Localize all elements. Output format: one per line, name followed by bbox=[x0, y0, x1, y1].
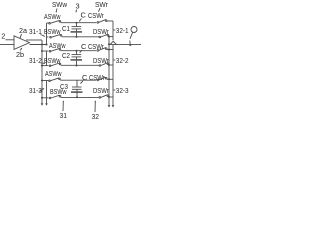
svg-text:31-2: 31-2 bbox=[29, 56, 42, 65]
switch BSWw unit2 bbox=[49, 65, 51, 67]
svg-text:32-1: 32-1 bbox=[116, 26, 129, 35]
svg-text:31-1: 31-1 bbox=[29, 27, 42, 36]
switch CSWr unit1 bbox=[97, 22, 99, 24]
label 32-3 bbox=[114, 86, 129, 95]
wire unit3 top bbox=[42, 80, 48, 82]
label 32 bbox=[92, 100, 100, 121]
switch CSWr unit3 bbox=[97, 79, 99, 81]
label C unit1 bbox=[79, 11, 87, 22]
svg-text:SWw: SWw bbox=[52, 0, 68, 9]
wire bus 31 vertical bbox=[41, 40, 43, 105]
wire caret connector bbox=[110, 41, 117, 45]
switch ASWw unit2 bbox=[49, 50, 51, 52]
label 2a bbox=[19, 26, 28, 38]
node bus31 unit2 bottom bbox=[41, 65, 43, 67]
wire 32 lower vertical bbox=[112, 45, 114, 107]
svg-text:DSWr: DSWr bbox=[93, 86, 109, 95]
svg-text:C: C bbox=[81, 42, 87, 51]
svg-text:31: 31 bbox=[60, 111, 68, 120]
switch DSWr unit2 bbox=[99, 65, 101, 67]
label 31-3 bbox=[29, 86, 44, 95]
switch CSWr unit2 bbox=[97, 50, 99, 52]
arrowhead 32seg end bbox=[112, 105, 115, 107]
wire op-amp output bbox=[30, 44, 47, 46]
wire unit1 bottom bbox=[47, 36, 49, 38]
label C unit2 bbox=[80, 42, 88, 53]
wire 32-1 vertical segment bbox=[112, 21, 114, 40]
wire input bottom bbox=[0, 44, 14, 46]
svg-text:SWr: SWr bbox=[95, 0, 108, 9]
wire input top bbox=[6, 39, 15, 41]
node bus31 unit3 bottom bbox=[41, 97, 43, 99]
switch ASWw unit1 bbox=[49, 22, 51, 24]
wire unit3 bottom bbox=[42, 97, 48, 99]
svg-text:2: 2 bbox=[1, 32, 5, 41]
label SWw bbox=[52, 0, 68, 13]
node bus31 unit3 bbox=[41, 79, 43, 81]
wire op-amp upper output bbox=[26, 39, 42, 41]
svg-text:CSWr: CSWr bbox=[88, 11, 104, 20]
wire 31-3 vertical segment bbox=[46, 81, 48, 105]
label SWr bbox=[95, 0, 108, 12]
svg-text:31-3: 31-3 bbox=[29, 86, 42, 95]
label 3 bbox=[75, 2, 79, 13]
svg-text:ASWw: ASWw bbox=[45, 69, 62, 78]
label 2b bbox=[16, 48, 24, 59]
svg-text:CSWr: CSWr bbox=[88, 42, 104, 51]
svg-text:3: 3 bbox=[76, 2, 80, 11]
svg-text:32-3: 32-3 bbox=[116, 86, 129, 95]
svg-text:ASWw: ASWw bbox=[44, 12, 61, 21]
svg-text:32: 32 bbox=[92, 112, 100, 120]
wire unit2 bottom bbox=[42, 65, 48, 67]
svg-text:BSWw: BSWw bbox=[50, 87, 67, 96]
terminal Q bbox=[131, 27, 137, 33]
arrowhead bus31 end bbox=[41, 103, 44, 105]
svg-text:32-2: 32-2 bbox=[116, 56, 129, 65]
switch ASWw unit3 bbox=[49, 80, 51, 82]
label C unit3 bbox=[80, 73, 88, 84]
arrowhead bus32 end bbox=[108, 105, 111, 107]
capacitor C2 bbox=[76, 50, 78, 52]
svg-text:2b: 2b bbox=[16, 50, 24, 59]
label 31-1 bbox=[29, 27, 45, 37]
wire 31-1 vertical segment bbox=[46, 23, 48, 45]
arrowhead 31seg end bbox=[45, 103, 48, 105]
node output junction bbox=[45, 43, 47, 45]
switch DSWr unit3 bbox=[99, 97, 101, 99]
svg-text:C2: C2 bbox=[62, 51, 70, 60]
capacitor C1 bbox=[76, 22, 78, 24]
label 31-2 bbox=[29, 56, 45, 65]
switch BSWw unit3 bbox=[49, 97, 51, 99]
svg-text:C: C bbox=[81, 11, 87, 20]
svg-text:C1: C1 bbox=[62, 24, 70, 33]
op-amp 2 bbox=[14, 36, 30, 50]
label 31 bbox=[60, 100, 68, 120]
node bus31 unit2 bbox=[41, 50, 43, 52]
svg-text:C: C bbox=[82, 73, 88, 82]
wire unit1 top bbox=[47, 22, 49, 24]
svg-text:2a: 2a bbox=[19, 26, 28, 35]
switch BSWw unit1 bbox=[50, 36, 52, 38]
capacitor C3 bbox=[76, 80, 78, 87]
node bus31 tap bbox=[41, 43, 43, 45]
wire unit2 top bbox=[42, 50, 48, 52]
wire 31-2 vertical segment bbox=[46, 51, 48, 66]
wire output Q bbox=[109, 44, 141, 46]
node bus32 top bbox=[108, 36, 110, 38]
label 32-2 bbox=[114, 56, 129, 65]
label 32-1 bbox=[114, 26, 129, 35]
wire bus 32 vertical bbox=[108, 37, 110, 107]
switch DSWr unit1 bbox=[99, 36, 101, 38]
